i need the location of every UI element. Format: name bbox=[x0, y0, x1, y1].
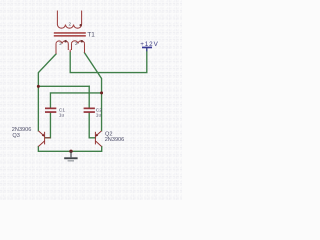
svg-text:1u: 1u bbox=[96, 112, 102, 118]
svg-text:T1: T1 bbox=[87, 31, 95, 38]
svg-text:+12V: +12V bbox=[140, 41, 158, 48]
svg-text:Q3: Q3 bbox=[12, 133, 19, 139]
svg-text:2: 2 bbox=[75, 41, 78, 46]
svg-text:2: 2 bbox=[59, 41, 62, 46]
svg-text:2N3906: 2N3906 bbox=[105, 137, 125, 143]
svg-text:2: 2 bbox=[69, 21, 72, 26]
svg-text:1u: 1u bbox=[59, 112, 65, 118]
